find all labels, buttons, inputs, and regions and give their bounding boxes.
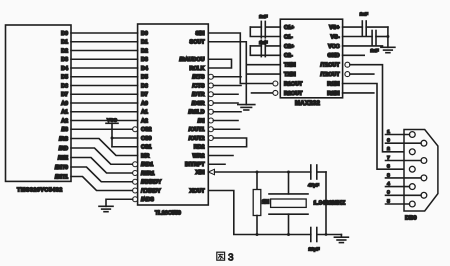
wire SOUT to T1IN — [208, 42, 280, 65]
svg-text:VS+: VS+ — [329, 25, 339, 31]
svg-text:/RI: /RI — [198, 118, 205, 124]
node XOUT-R junction — [256, 233, 259, 236]
svg-text:1.8432MHZ: 1.8432MHZ — [314, 201, 346, 207]
wire A1 bus — [71, 111, 138, 113]
svg-text:5: 5 — [387, 198, 390, 204]
wire SIN to R1OUT — [208, 33, 272, 84]
wire VCC to CS0 — [112, 137, 138, 139]
crystal Y1 1.8432MHZ — [269, 172, 308, 235]
svg-text:22pF: 22pF — [309, 247, 320, 252]
svg-text:MAX232: MAX232 — [295, 101, 321, 107]
pin bubble /OUT2 — [208, 136, 213, 141]
svg-text:/CTS: /CTS — [192, 83, 205, 89]
power VCC — [106, 117, 118, 146]
svg-text:CS2: CS2 — [141, 127, 152, 133]
svg-text:TMS320VC5432: TMS320VC5432 — [17, 188, 63, 194]
svg-text:D0: D0 — [141, 31, 148, 37]
capacitor C2 1uF — [250, 40, 280, 56]
pin bubble /OUT1 — [208, 127, 213, 132]
wire DB9 pin 7 stub — [386, 160, 422, 162]
svg-text:A2: A2 — [61, 118, 68, 124]
svg-text:/TXRDY: /TXRDY — [141, 188, 161, 194]
svg-text:9: 9 — [387, 190, 390, 196]
svg-text:/INT1: /INT1 — [55, 174, 68, 180]
svg-text:T2IN: T2IN — [284, 72, 296, 78]
node VCC-CS0 junction — [111, 137, 114, 140]
capacitor C1 1uF — [250, 14, 280, 38]
svg-text:4: 4 — [387, 181, 390, 187]
wire VCC stub — [343, 45, 383, 47]
svg-text:A0: A0 — [61, 101, 68, 107]
svg-text:47pF: 47pF — [308, 183, 319, 188]
svg-text:3: 3 — [387, 164, 390, 170]
pin bubble /T1OUT — [345, 62, 350, 67]
svg-text:/RD1: /RD1 — [141, 162, 153, 168]
wire D1 bus — [71, 41, 138, 43]
svg-text:A1: A1 — [61, 110, 68, 116]
svg-text:A0: A0 — [141, 101, 148, 107]
pin bubble /TXRDY — [133, 188, 138, 193]
svg-text:INTRPT: INTRPT — [185, 162, 205, 168]
wire /T2OUT stub — [350, 73, 374, 75]
wire XIN net — [208, 169, 326, 174]
svg-text:2: 2 — [387, 146, 390, 152]
pin bubble /ADS — [133, 197, 138, 202]
wire /OUT2 to RD2 loop — [208, 138, 246, 147]
svg-text:CS1: CS1 — [141, 145, 152, 151]
wire A0 bus — [71, 102, 138, 104]
svg-text:A1: A1 — [141, 110, 148, 116]
wire /ADS to ground — [106, 199, 133, 206]
svg-text:D1: D1 — [141, 40, 148, 46]
wire /RI stub — [213, 120, 238, 122]
node cap common junction — [325, 233, 328, 236]
svg-text:R2IN: R2IN — [327, 91, 339, 97]
svg-text:1: 1 — [387, 129, 390, 135]
svg-text:D6: D6 — [61, 83, 68, 89]
svg-text:XIN: XIN — [196, 170, 205, 176]
wire /RSLD stub — [213, 111, 241, 113]
svg-text:R1IN: R1IN — [327, 81, 339, 87]
resistor R1 1M — [253, 172, 269, 235]
svg-text:RCLK: RCLK — [190, 66, 205, 72]
svg-text:C1-: C1- — [284, 34, 293, 40]
svg-text:XOUT: XOUT — [190, 188, 206, 194]
wire DB9 pin 8 stub — [386, 177, 422, 179]
svg-text:DB9: DB9 — [405, 216, 417, 222]
svg-text:R1OUT: R1OUT — [284, 81, 303, 87]
wire /DTR stub — [213, 93, 238, 95]
node XOUT-XTAL junction — [287, 233, 290, 236]
svg-text:/T2OUT: /T2OUT — [320, 72, 340, 78]
node XIN-XTAL junction — [287, 171, 290, 174]
svg-text:D5: D5 — [61, 75, 68, 81]
svg-text:/RTS: /RTS — [192, 75, 205, 81]
wire DB9 pin 6 stub — [386, 142, 422, 144]
IC U1 TMS320VC5432 DSP — [6, 25, 72, 181]
svg-text:/BAUDOU: /BAUDOU — [179, 57, 204, 63]
wire /RD to /RD1 — [71, 148, 133, 164]
IC U3 MAX232 — [280, 19, 342, 98]
svg-text:1uF: 1uF — [360, 12, 368, 17]
pin bubble /CTS — [208, 83, 213, 88]
svg-text:T1IN: T1IN — [284, 63, 296, 69]
wire D3 bus — [71, 58, 138, 60]
connector J1 DB9 — [404, 130, 438, 212]
svg-text:/RXRDY: /RXRDY — [141, 180, 162, 186]
wire WR2 stub — [208, 155, 233, 157]
svg-text:8: 8 — [387, 172, 390, 178]
svg-text:/IS: /IS — [61, 127, 68, 133]
svg-text:VS-: VS- — [331, 34, 340, 40]
wire D7 bus — [71, 93, 138, 95]
wire D2 bus — [71, 50, 138, 52]
svg-text:/WR1: /WR1 — [141, 171, 154, 177]
wire DB9 pin 9 stub — [386, 194, 422, 196]
svg-text:/INT0: /INT0 — [55, 165, 68, 171]
caption figure 3 — [217, 252, 234, 263]
pin bubble R1OUT — [273, 81, 278, 86]
svg-text:/RS: /RS — [59, 136, 68, 142]
svg-text:/WE: /WE — [58, 155, 69, 161]
capacitor C5 47pF — [308, 165, 319, 188]
pin bubble /RXRDY — [133, 179, 138, 184]
wire /WE to /WR1 — [71, 158, 133, 174]
wire D4 bus — [71, 67, 138, 69]
svg-text:7: 7 — [387, 155, 390, 161]
svg-text:GND: GND — [328, 53, 340, 59]
pin bubble /DSR — [208, 101, 213, 106]
svg-text:TL16C550: TL16C550 — [155, 211, 181, 217]
svg-text:R2OUT: R2OUT — [284, 91, 303, 97]
svg-text:D3: D3 — [141, 57, 148, 63]
svg-text:C2+: C2+ — [284, 44, 294, 50]
pin bubble /T2OUT — [345, 72, 350, 77]
wire R1IN to DB9 pin3 — [343, 84, 410, 170]
wire R2IN stub — [343, 92, 374, 94]
svg-text:3: 3 — [228, 253, 234, 264]
svg-text:RD2: RD2 — [194, 145, 205, 151]
ground T2IN — [238, 105, 255, 110]
wire DB9 pin 1 stub — [386, 134, 410, 136]
wire D0 bus — [71, 32, 138, 34]
ground /ADS — [99, 206, 113, 211]
svg-text:VCC: VCC — [328, 44, 339, 50]
svg-text:SIN: SIN — [196, 31, 205, 37]
svg-text:/OUT1: /OUT1 — [189, 127, 205, 133]
wire /RS to MR — [71, 139, 138, 156]
svg-text:D4: D4 — [61, 66, 68, 72]
svg-text:D5: D5 — [141, 75, 148, 81]
svg-text:SOUT: SOUT — [190, 40, 206, 46]
svg-text:/ADS: /ADS — [141, 197, 154, 203]
pin bubble /RTS — [208, 74, 213, 79]
wire /CTS stub — [213, 85, 241, 87]
IC U2 TL16C550 UART — [138, 24, 209, 205]
wire T2IN ground drop — [245, 65, 247, 105]
ground crystal — [334, 237, 348, 242]
wire /BAUDOUT to RCLK loop — [208, 59, 231, 68]
pin bubble /CS2 — [133, 127, 138, 132]
svg-text:/RD: /RD — [59, 146, 68, 152]
svg-text:D3: D3 — [61, 57, 68, 63]
svg-text:A2: A2 — [141, 118, 148, 124]
wire DB9 pin 4 stub — [386, 186, 410, 188]
wire /T1OUT to DB9 pin2 — [350, 65, 410, 152]
wire /IS to /CS2 — [71, 128, 133, 130]
svg-text:1uF: 1uF — [370, 48, 378, 53]
pin bubble /WR1 — [133, 171, 138, 176]
svg-text:VCC: VCC — [107, 117, 118, 122]
svg-text:D7: D7 — [61, 92, 68, 98]
svg-text:1uF: 1uF — [259, 14, 267, 19]
pin bubble /DTR — [208, 92, 213, 97]
svg-text:/OUT2: /OUT2 — [189, 136, 205, 142]
wire R2OUT stub — [252, 92, 273, 94]
wire /OUT1 stub — [213, 128, 239, 130]
wire INTRPT stub — [208, 163, 225, 165]
svg-text:/T1OUT: /T1OUT — [320, 63, 340, 69]
wire /DSR stub — [213, 102, 238, 104]
wire VCC to CS1 — [112, 146, 138, 148]
node XIN-R junction — [256, 171, 259, 174]
wire T2IN — [246, 73, 280, 75]
capacitor C6 22pF — [309, 228, 320, 252]
svg-text:/RSLD: /RSLD — [188, 110, 204, 116]
svg-text:C1+: C1+ — [284, 25, 294, 31]
svg-text:1uF: 1uF — [259, 40, 267, 45]
svg-text:D1: D1 — [61, 40, 68, 46]
ground MAX232 — [381, 47, 395, 52]
pin bubble /RSLD — [208, 109, 213, 114]
wire D6 bus — [71, 85, 138, 87]
svg-text:C2-: C2- — [284, 53, 293, 59]
svg-text:D4: D4 — [141, 66, 148, 72]
wire XOUT net — [208, 191, 310, 235]
pin bubble /RD1 — [133, 162, 138, 167]
wire DB9 pin 5 stub — [386, 203, 410, 205]
svg-text:D6: D6 — [141, 83, 148, 89]
wire D5 bus — [71, 76, 138, 78]
svg-text:6: 6 — [387, 138, 390, 144]
svg-text:D2: D2 — [141, 48, 148, 54]
pin bubble /RI — [208, 118, 213, 123]
svg-text:1M: 1M — [262, 200, 269, 206]
wire VS caps to ground — [387, 27, 389, 47]
wire A2 bus — [71, 120, 138, 122]
svg-text:D7: D7 — [141, 92, 148, 98]
wire GND stub — [343, 54, 365, 56]
svg-text:MR: MR — [141, 153, 149, 159]
svg-text:/DTR: /DTR — [192, 92, 205, 98]
svg-text:D2: D2 — [61, 48, 68, 54]
svg-text:CS0: CS0 — [141, 136, 152, 142]
svg-text:WR2: WR2 — [193, 153, 205, 159]
pin bubble R2OUT — [273, 90, 278, 95]
capacitor C3 1uF (VS+) — [343, 12, 388, 36]
wire /INT1 to /TXRDY — [71, 177, 133, 191]
svg-text:D0: D0 — [61, 31, 68, 37]
svg-text:/DSR: /DSR — [192, 101, 205, 107]
wire /RTS stub — [213, 76, 241, 78]
capacitor C4 1uF (VS-) — [343, 31, 388, 54]
wire /INT0 to /RXRDY — [71, 167, 133, 182]
wire cap common to ground — [317, 172, 342, 237]
node VS- junction — [386, 35, 389, 38]
